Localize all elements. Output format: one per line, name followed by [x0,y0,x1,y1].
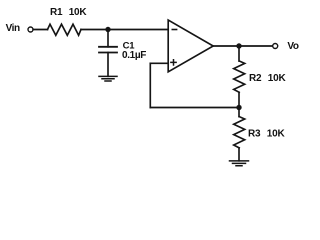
resistor R1 [48,24,82,35]
svg-text:10K: 10K [69,7,88,18]
wire feedback bottom horizontal [150,107,239,109]
ground (R3) [230,161,249,166]
wire junction to C1 top plate [107,30,109,47]
wire mid node to R3 [238,108,240,117]
svg-text:Vin: Vin [6,23,20,34]
wire R3 to ground [238,148,240,161]
wire C1 to ground [107,53,109,77]
capacitor C1 [99,47,117,53]
svg-text:Vo: Vo [287,41,299,52]
wire output node to R2 [238,46,240,61]
op-amp plus pin mark [171,60,176,65]
node junction dot at R1/C1 [105,27,110,32]
wire feedback left vertical [149,63,151,107]
svg-text:0.1µF: 0.1µF [122,50,146,61]
output terminal circle [273,44,278,49]
wire op-amp output to Vo [213,45,273,47]
wire R1 to op-amp inverting input [81,29,168,31]
resistor R3 [234,117,245,148]
node output junction dot [236,43,241,48]
node mid junction dot [236,105,241,110]
svg-text:10K: 10K [268,73,287,84]
wire R2 to mid node [238,92,240,107]
svg-text:10K: 10K [267,128,286,139]
ground (C1) [99,76,117,81]
svg-text:R3: R3 [248,128,261,139]
svg-text:R2: R2 [249,73,262,84]
wire Vin to R1 [33,29,47,31]
svg-text:R1: R1 [50,7,63,18]
op-amp minus pin mark [172,29,176,31]
resistor R2 [234,61,245,92]
input terminal circle [28,27,33,32]
wire noninverting input [150,62,168,64]
op-amp U1 [168,20,213,72]
